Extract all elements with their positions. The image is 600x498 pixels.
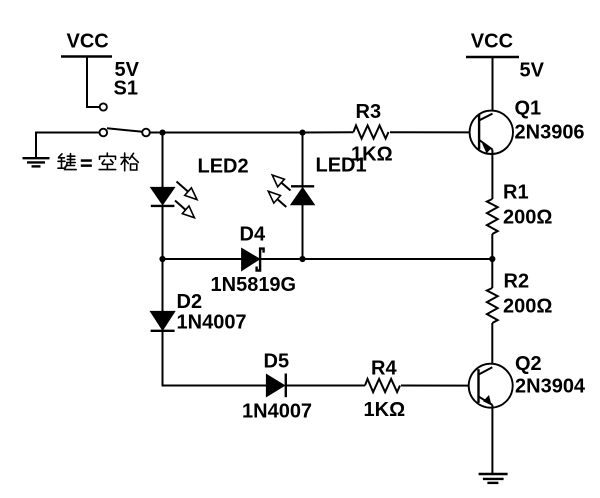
resistor R4 — [365, 379, 400, 392]
resistor R3 — [354, 125, 389, 138]
svg-text:1KΩ: 1KΩ — [364, 399, 406, 421]
wire to D4 anode — [163, 258, 243, 260]
wire junction to R2 — [491, 259, 493, 288]
diode D4 (schottky) — [242, 248, 264, 270]
svg-text:1N4007: 1N4007 — [242, 401, 312, 423]
LED1 diode body (reversed) — [291, 186, 315, 205]
junction dot R1/R2 — [489, 256, 495, 262]
wire D4 cathode to node — [260, 258, 303, 260]
switch S1 arm — [107, 128, 143, 132]
LED2 emission arrow 1 — [177, 182, 198, 200]
LED1 emission arrow 1 — [272, 175, 290, 191]
svg-text:1KΩ: 1KΩ — [351, 144, 393, 166]
svg-text:R1: R1 — [503, 181, 529, 203]
resistor R1 — [487, 199, 498, 234]
diode D5 — [266, 374, 285, 398]
wire switch to LED node — [150, 132, 302, 134]
resistor R2 — [487, 288, 498, 323]
equals sign of key label — [81, 159, 92, 167]
LED1 emission arrow 2 — [268, 191, 286, 207]
wire R3 to Q1 base — [390, 131, 479, 133]
svg-text:VCC: VCC — [471, 31, 513, 53]
switch S1 pole circle (left) — [100, 129, 108, 137]
svg-text:5V: 5V — [520, 60, 545, 82]
power VCC1 symbol (left) — [61, 57, 112, 108]
wire D4 node down to D2 — [162, 259, 164, 312]
svg-text:Q1: Q1 — [515, 98, 542, 120]
svg-text:200Ω: 200Ω — [503, 206, 552, 228]
transistor Q1 2N3906 — [470, 111, 513, 154]
svg-text:R3: R3 — [356, 101, 382, 123]
svg-text:VCC: VCC — [67, 30, 109, 52]
svg-text:D2: D2 — [177, 291, 203, 313]
svg-text:D4: D4 — [240, 223, 266, 245]
svg-text:2N3904: 2N3904 — [515, 375, 586, 397]
junction dot left of D4 — [159, 256, 165, 262]
wire LED2 to D4 node — [162, 206, 164, 259]
LED2 emission arrow 2 — [175, 201, 194, 218]
wire Q1 emitter to R1 — [491, 150, 493, 199]
空格 part — [99, 153, 138, 171]
svg-text:1N5819G: 1N5819G — [211, 274, 297, 296]
svg-text:D5: D5 — [264, 351, 290, 373]
ground GND2 — [479, 474, 508, 483]
switch S1 throw circle (right) — [142, 129, 150, 137]
svg-text:1N4007: 1N4007 — [177, 312, 247, 334]
wire top node down to LED2 — [162, 133, 164, 189]
wire D2 to bottom rail — [163, 331, 267, 386]
wire R2 to Q2 collector — [491, 323, 493, 367]
label 键 = 空格 (key = space) — [58, 154, 76, 170]
ground GND1 — [23, 132, 50, 167]
power VCC2 symbol (right) — [466, 57, 519, 114]
wire top node down to LED1 — [302, 133, 304, 187]
wire node to R3 — [303, 131, 354, 133]
svg-text:LED2: LED2 — [198, 156, 249, 178]
transistor Q2 2N3904 — [469, 364, 513, 408]
wire R1 to junction — [491, 234, 493, 259]
wire R4 to Q2 base — [401, 385, 479, 387]
svg-text:2N3906: 2N3906 — [515, 122, 585, 144]
svg-text:R2: R2 — [504, 271, 530, 293]
LED2 diode body — [151, 187, 175, 206]
wire Q2 emitter to ground — [491, 405, 493, 474]
wire ground to switch — [36, 132, 99, 134]
junction dot at LED1/R3 node — [299, 130, 305, 136]
junction dot right of D4 — [299, 256, 305, 262]
svg-text:R4: R4 — [371, 357, 397, 379]
junction dot at switch output — [159, 130, 165, 136]
wire D4 node to R1/R2 junction — [303, 258, 493, 260]
wire LED1 to D4 node — [302, 205, 304, 259]
svg-text:Q2: Q2 — [515, 353, 542, 375]
svg-text:S1: S1 — [114, 78, 138, 100]
switch S1 terminal circle (upper) — [100, 103, 107, 110]
wire D5 to R4 — [286, 385, 365, 387]
svg-text:200Ω: 200Ω — [503, 295, 552, 317]
diode D2 — [150, 311, 174, 330]
